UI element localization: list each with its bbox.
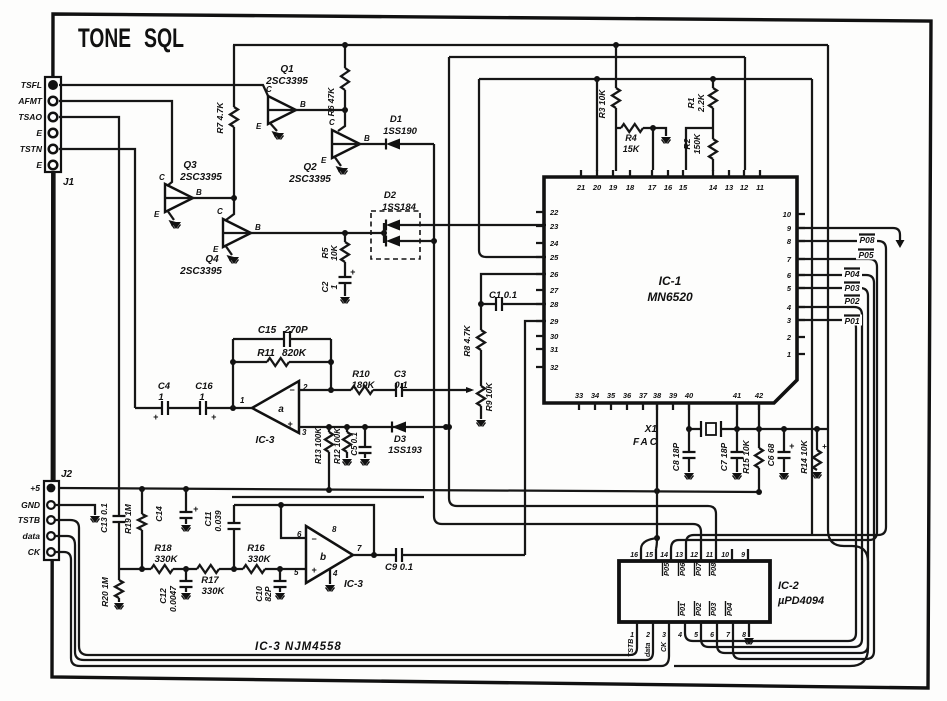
svg-text:1: 1 <box>630 632 634 639</box>
svg-text:6: 6 <box>710 632 714 639</box>
svg-text:12: 12 <box>690 552 698 559</box>
svg-text:33: 33 <box>575 391 584 400</box>
svg-text:B: B <box>300 100 306 109</box>
svg-text:C4: C4 <box>158 381 171 392</box>
svg-text:P01: P01 <box>678 603 687 616</box>
diode pair D2 1SS184 <box>371 190 420 259</box>
svg-text:R7 4.7K: R7 4.7K <box>215 102 225 134</box>
svg-text:R14 10K: R14 10K <box>799 439 809 473</box>
svg-text:C12: C12 <box>158 588 168 604</box>
svg-text:1: 1 <box>199 392 204 403</box>
wire parallel rail segment <box>232 496 424 498</box>
ground below R14 <box>812 472 822 479</box>
svg-text:P08: P08 <box>709 562 718 576</box>
capacitor C6 68 (electrolytic) <box>766 429 795 472</box>
wire D1 to bus (vertical x=434) <box>431 144 701 549</box>
resistor R17 330K <box>197 565 243 597</box>
IC-2 pin 1 label TSTB <box>628 639 635 657</box>
svg-text:P03: P03 <box>709 602 718 616</box>
wire op-amp b ground pin 4 <box>325 569 335 592</box>
wire op-amp a pin3 line <box>299 424 449 430</box>
J1 pin E <box>36 128 57 138</box>
resistor R2 150K <box>682 108 717 171</box>
svg-text:1SS193: 1SS193 <box>388 445 423 456</box>
svg-text:+: + <box>153 412 159 422</box>
svg-text:12: 12 <box>740 183 749 192</box>
svg-text:D1: D1 <box>390 114 402 125</box>
IC-1 pin 9 wire with arrow <box>797 228 905 248</box>
svg-text:b: b <box>320 552 326 563</box>
svg-text:+: + <box>211 412 217 422</box>
net P03 from IC-1 pin 5 <box>717 282 868 654</box>
svg-text:R9 10K: R9 10K <box>484 382 494 412</box>
svg-text:26: 26 <box>549 270 559 279</box>
svg-text:5: 5 <box>694 632 698 639</box>
resistor R4 15K <box>616 124 666 170</box>
svg-text:28: 28 <box>549 300 559 309</box>
IC-2 pin 2 label data <box>645 643 652 658</box>
svg-text:11: 11 <box>706 552 713 559</box>
wire IC-1 pin 41 down <box>736 403 738 429</box>
capacitor C9 0.1 <box>353 548 525 573</box>
svg-text:2SC3395: 2SC3395 <box>179 172 222 183</box>
svg-text:21: 21 <box>576 183 585 192</box>
svg-text:16: 16 <box>664 183 673 192</box>
svg-text:37: 37 <box>639 391 648 400</box>
svg-text:13: 13 <box>725 183 734 192</box>
capacitor C3 0.1 <box>373 369 474 397</box>
svg-text:R8 4.7K: R8 4.7K <box>462 325 472 357</box>
resistor R14 10K <box>799 429 827 474</box>
svg-text:data: data <box>23 531 41 541</box>
svg-text:R20 1M: R20 1M <box>100 576 110 607</box>
wire Q3 base to R7 <box>192 197 234 199</box>
J1 pin TSAO <box>18 112 57 122</box>
wire TSAO down to lower rail <box>59 117 119 514</box>
capacitor C10 82P <box>254 569 287 602</box>
svg-text:P05: P05 <box>858 250 873 260</box>
diode D1 1SS190 <box>360 114 434 150</box>
svg-text:P04: P04 <box>725 602 734 616</box>
svg-text:22: 22 <box>549 208 559 217</box>
svg-text:TSTN: TSTN <box>20 144 43 154</box>
svg-text:P02: P02 <box>844 296 859 306</box>
capacitor C4 1 (electrolytic) <box>135 381 171 422</box>
resistor R6 47K <box>326 42 349 131</box>
ground at R4 <box>661 137 671 144</box>
svg-text:C15: C15 <box>258 325 277 336</box>
svg-text:E: E <box>256 122 262 131</box>
svg-text:1SS190: 1SS190 <box>383 126 418 137</box>
svg-text:P04: P04 <box>844 269 859 279</box>
svg-text:15: 15 <box>679 183 688 192</box>
svg-text:X1: X1 <box>644 424 658 435</box>
diode D3 1SS193 <box>388 422 423 457</box>
svg-text:150K: 150K <box>692 133 702 154</box>
svg-text:35: 35 <box>607 391 616 400</box>
resistor R1 2.2K <box>686 79 717 113</box>
svg-text:5: 5 <box>294 568 299 577</box>
net P01 from IC-1 pin 3 <box>685 315 862 642</box>
svg-text:P05: P05 <box>662 562 671 576</box>
svg-text:C6 68: C6 68 <box>766 443 776 466</box>
svg-text:−: − <box>289 385 295 395</box>
J2 pin +5 <box>30 483 55 493</box>
svg-text:TSAO: TSAO <box>18 112 42 122</box>
capacitor C11 0.039 <box>203 505 241 569</box>
svg-text:330K: 330K <box>202 586 226 597</box>
wire J2 GND to ground <box>55 505 100 523</box>
svg-text:2.2K: 2.2K <box>696 93 706 113</box>
svg-text:4: 4 <box>332 569 338 578</box>
connector J2 <box>44 469 73 560</box>
svg-text:38: 38 <box>653 391 662 400</box>
svg-text:IC-3 NJM4558: IC-3 NJM4558 <box>255 641 342 653</box>
svg-text:24: 24 <box>549 239 559 248</box>
capacitor C2 1 (electrolytic) <box>320 267 356 296</box>
resistor R15 10K (IC-1 pin 42 to +5 rail) <box>741 403 763 491</box>
wire top bus 1 right drop and wrap to bottom <box>674 45 868 666</box>
capacitor C16 1 (electrolytic) <box>168 381 252 422</box>
svg-text:1: 1 <box>240 396 245 405</box>
svg-text:C14: C14 <box>154 506 164 522</box>
J1 pin AFMT <box>17 96 57 106</box>
resistor R5 10K <box>320 233 349 271</box>
svg-text:0.0047: 0.0047 <box>168 585 178 612</box>
resistor R10 180K <box>299 369 375 394</box>
ground below R20 <box>114 603 124 610</box>
svg-text:1: 1 <box>158 392 163 403</box>
transistor Q4 <box>179 207 261 277</box>
svg-text:E: E <box>36 128 42 138</box>
svg-text:C5 0.1: C5 0.1 <box>350 432 359 456</box>
svg-text:CK: CK <box>28 547 41 557</box>
svg-text:TSFL: TSFL <box>21 80 42 90</box>
J2 pin data <box>23 531 55 541</box>
svg-text:IC-1: IC-1 <box>659 274 682 288</box>
svg-text:C: C <box>329 118 335 127</box>
ground below C12 <box>181 593 191 600</box>
svg-text:GND: GND <box>21 500 40 510</box>
svg-text:TONE: TONE <box>78 23 131 53</box>
transistor Q1 <box>256 64 308 140</box>
svg-text:+: + <box>822 442 827 451</box>
svg-text:C13 0.1: C13 0.1 <box>99 503 109 533</box>
capacitor C14 (electrolytic) <box>154 489 199 524</box>
svg-text:E: E <box>213 245 219 254</box>
svg-text:36: 36 <box>623 391 632 400</box>
svg-text:C: C <box>159 173 165 182</box>
wire D2 to IC-1 pin 23 <box>400 224 546 226</box>
capacitor C7 18P <box>719 429 744 472</box>
svg-text:17: 17 <box>648 183 657 192</box>
IC-2 pin 8 ground <box>744 630 754 645</box>
wire TSFL to Q1 <box>59 85 269 98</box>
svg-text:15K: 15K <box>623 144 641 154</box>
svg-text:R15 10K: R15 10K <box>741 439 751 473</box>
svg-text:330K: 330K <box>155 554 179 565</box>
J1 pin E <box>36 160 57 170</box>
svg-text:1: 1 <box>787 350 791 359</box>
wire CK to IC-2 pin 3 <box>55 552 669 666</box>
svg-text:10: 10 <box>721 552 729 559</box>
svg-text:14: 14 <box>709 183 718 192</box>
op-amp U3a IC-3 <box>240 381 308 446</box>
svg-text:2SC3395: 2SC3395 <box>265 76 308 87</box>
svg-text:FAC: FAC <box>633 437 659 448</box>
svg-text:C: C <box>217 207 223 216</box>
svg-text:39: 39 <box>669 391 678 400</box>
wire D2 lower diode to D1 bus <box>400 240 434 242</box>
svg-text:R19 1M: R19 1M <box>123 503 133 534</box>
svg-text:R10: R10 <box>352 369 370 380</box>
capacitor C8 18P <box>671 429 696 472</box>
svg-text:a: a <box>278 404 284 415</box>
wire top bus 3 (y=79) <box>479 76 812 82</box>
svg-text:R2: R2 <box>682 138 692 149</box>
ground below C8 <box>684 473 694 480</box>
svg-text:29: 29 <box>549 317 559 326</box>
svg-text:E: E <box>154 210 160 219</box>
resistor R12 100K <box>333 427 351 464</box>
resistor R7 4.7K <box>215 45 238 220</box>
svg-text:23: 23 <box>549 222 559 231</box>
net P02 from IC-1 pin 4 <box>701 295 862 648</box>
svg-text:C9 0.1: C9 0.1 <box>385 562 413 573</box>
wire TSTN to C4 <box>59 149 135 408</box>
svg-text:10: 10 <box>783 210 792 219</box>
svg-text:+: + <box>193 504 199 514</box>
feedback loop capacitor C15 270P <box>233 325 331 408</box>
svg-text:CK: CK <box>661 641 668 652</box>
svg-text:R16: R16 <box>247 543 265 554</box>
svg-text:P01: P01 <box>844 316 859 326</box>
wire Q4 base to D2 <box>251 230 387 236</box>
op-amp U3b IC-3 <box>294 525 363 590</box>
svg-text:0.039: 0.039 <box>213 510 223 532</box>
svg-text:30: 30 <box>550 332 559 341</box>
svg-text:2SC3395: 2SC3395 <box>179 266 222 277</box>
svg-text:SQL: SQL <box>144 23 184 53</box>
svg-text:R6 47K: R6 47K <box>326 87 336 117</box>
svg-text:19: 19 <box>609 183 618 192</box>
svg-text:11: 11 <box>756 183 764 192</box>
svg-text:25: 25 <box>549 253 559 262</box>
svg-text:40: 40 <box>684 391 694 400</box>
wire +5 rail from J2 <box>59 486 762 495</box>
feedback resistor R11 820K <box>230 339 334 393</box>
svg-text:AFMT: AFMT <box>17 96 42 106</box>
wire bus 3 right drop to P-bus <box>811 79 813 534</box>
svg-text:R13 100K: R13 100K <box>314 427 323 464</box>
svg-text:TSTB: TSTB <box>628 639 635 657</box>
svg-text:270P: 270P <box>283 325 308 336</box>
svg-text:10K: 10K <box>329 244 339 260</box>
svg-text:+5: +5 <box>30 483 40 493</box>
transistor Q2 <box>288 118 370 185</box>
wire crystal row bus <box>686 426 828 432</box>
svg-text:32: 32 <box>550 363 559 372</box>
svg-text:8: 8 <box>742 632 746 639</box>
svg-text:31: 31 <box>550 345 558 354</box>
ground below C10 <box>275 593 285 600</box>
title TONE SQL <box>78 23 184 53</box>
wire data to IC-2 pin 2 <box>55 536 653 660</box>
svg-text:1SS184: 1SS184 <box>382 202 417 213</box>
J2 pin TSTB <box>18 515 55 525</box>
wire branch to IC-2 pin 16 <box>641 538 657 549</box>
resistor R19 1M <box>123 489 146 569</box>
wire IC-1 pin 38 to IC-2 pin 15 <box>654 403 660 549</box>
wire J1 to J2 connector strip <box>53 172 55 481</box>
wire AFMT to Q3 <box>59 101 172 186</box>
svg-text:D2: D2 <box>384 190 397 201</box>
svg-text:IC-2: IC-2 <box>778 580 799 592</box>
svg-text:4: 4 <box>786 303 792 312</box>
ground below C2 <box>340 297 350 304</box>
J2 pin GND <box>21 500 55 510</box>
svg-text:82P: 82P <box>263 586 273 601</box>
svg-text:20: 20 <box>592 183 602 192</box>
svg-text:2: 2 <box>786 333 792 342</box>
IC-2 pin 3 label CK <box>661 641 668 652</box>
svg-text:−: − <box>311 534 317 544</box>
svg-text:+: + <box>350 267 356 277</box>
wire IC-1 pin 40 down <box>688 403 690 429</box>
svg-text:8: 8 <box>332 525 337 534</box>
J1 pin TSFL <box>21 80 58 90</box>
svg-text:1: 1 <box>329 284 339 289</box>
svg-text:41: 41 <box>732 391 741 400</box>
ground below C6 <box>779 473 789 480</box>
resistor R8 4.7K <box>462 304 485 357</box>
IC U2: IC-2 uPD4094 <box>619 549 824 639</box>
svg-text:R3 10K: R3 10K <box>597 89 607 119</box>
svg-text:330K: 330K <box>248 554 272 565</box>
capacitor C12 0.0047 <box>158 569 193 612</box>
net P05 from IC-1 pin 7 <box>671 249 877 550</box>
capacitor C13 0.1 <box>99 503 126 569</box>
svg-text:P03: P03 <box>844 283 859 293</box>
ground below C5 <box>360 459 370 466</box>
svg-text:D3: D3 <box>394 434 407 445</box>
resistor R3 10K <box>597 45 620 171</box>
svg-text:R1: R1 <box>686 97 696 108</box>
svg-text:C1 0.1: C1 0.1 <box>489 290 517 301</box>
svg-text:TSTB: TSTB <box>18 515 40 525</box>
svg-text:R11: R11 <box>257 348 275 359</box>
svg-text:R12 100K: R12 100K <box>333 427 342 464</box>
resistor R16 330K <box>243 543 306 573</box>
svg-text:C11: C11 <box>203 511 213 526</box>
svg-text:4: 4 <box>677 632 682 639</box>
svg-text:27: 27 <box>549 286 559 295</box>
transistor Q3 <box>154 160 222 229</box>
wire lower rail <box>119 566 283 572</box>
ground below R12 <box>342 459 352 466</box>
wire bus3 to IC-1 pin 20 <box>596 79 598 171</box>
svg-text:Q3: Q3 <box>183 160 197 171</box>
svg-text:16: 16 <box>630 552 638 559</box>
svg-text:13: 13 <box>675 552 683 559</box>
svg-text:E: E <box>321 156 327 165</box>
svg-text:B: B <box>364 134 370 143</box>
wire bus 2 right drop to IC-1 pin 12 <box>744 57 746 170</box>
svg-text:P02: P02 <box>694 602 703 616</box>
svg-text:B: B <box>196 188 202 197</box>
capacitor C1 0.1 <box>478 290 546 311</box>
svg-text:C3: C3 <box>394 369 407 380</box>
svg-text:14: 14 <box>660 552 668 559</box>
wire top bus 1 (y=45) <box>233 42 828 48</box>
ground below C7 <box>732 473 742 480</box>
svg-text:J1: J1 <box>63 177 75 188</box>
svg-text:R18: R18 <box>154 543 172 554</box>
svg-text:820K: 820K <box>282 348 307 359</box>
svg-text:P08: P08 <box>859 235 874 245</box>
svg-text:+: + <box>789 441 795 451</box>
wire C9 to IC-1 pin 29 <box>525 321 546 555</box>
svg-text:E: E <box>36 160 42 170</box>
svg-text:42: 42 <box>754 391 764 400</box>
resistor R18 330K <box>151 543 197 573</box>
wire IC-1 pin 26 to left column <box>481 274 546 304</box>
svg-text:R4: R4 <box>625 133 637 143</box>
svg-text:µPD4094: µPD4094 <box>777 595 824 607</box>
svg-text:2: 2 <box>645 632 650 639</box>
ground below C14 <box>181 525 191 532</box>
svg-text:34: 34 <box>591 391 600 400</box>
svg-text:15: 15 <box>645 552 653 559</box>
wire Q1 base to R6 <box>296 107 348 113</box>
net P08 from IC-1 pin 8 <box>686 234 886 550</box>
connector J1 <box>45 77 75 188</box>
capacitor C5 0.1 <box>350 427 372 458</box>
svg-text:Q2: Q2 <box>303 162 317 173</box>
svg-text:Q1: Q1 <box>280 64 294 75</box>
svg-text:+: + <box>311 565 317 575</box>
resistor R13 100K <box>314 427 333 490</box>
wire bus 2 left drop to IC-2 pin 11 <box>446 57 716 549</box>
svg-text:MN6520: MN6520 <box>647 290 693 304</box>
resistor R20 1M <box>100 569 123 607</box>
svg-text:IC-3: IC-3 <box>256 435 275 446</box>
J1 pin TSTN <box>20 144 58 154</box>
svg-text:J2: J2 <box>61 469 73 480</box>
svg-text:IC-3: IC-3 <box>344 579 363 590</box>
svg-text:+: + <box>287 419 293 429</box>
net P04 from IC-1 pin 6 <box>733 268 874 660</box>
svg-text:P06: P06 <box>678 562 687 576</box>
svg-text:Q4: Q4 <box>205 254 219 265</box>
svg-text:0.1: 0.1 <box>394 380 407 391</box>
svg-text:3: 3 <box>662 632 666 639</box>
IC U1: IC-1 MN6520 <box>536 170 805 410</box>
svg-text:C7 18P: C7 18P <box>719 442 729 471</box>
svg-text:C8 18P: C8 18P <box>671 442 681 471</box>
wire top bus 2 (y=57) <box>449 56 745 58</box>
svg-text:B: B <box>255 223 261 232</box>
crystal X1 FAC <box>633 421 737 448</box>
svg-text:C16: C16 <box>195 381 213 392</box>
wire bus 3 left drop to IC-1 pin 25 <box>479 79 546 257</box>
svg-text:18: 18 <box>626 183 635 192</box>
wire TSTB to IC-2 pin 1 <box>55 520 637 655</box>
wire op-amp b feedback <box>234 502 374 555</box>
svg-text:2SC3395: 2SC3395 <box>288 174 331 185</box>
svg-text:7: 7 <box>357 544 362 553</box>
svg-text:3: 3 <box>302 428 307 437</box>
